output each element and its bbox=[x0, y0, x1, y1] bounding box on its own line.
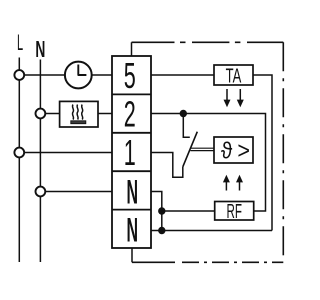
wire junction to RF bbox=[162, 210, 215, 212]
TA down arrow 2 bbox=[237, 89, 244, 107]
svg-text:5: 5 bbox=[124, 57, 136, 97]
svg-text:RF: RF bbox=[226, 201, 241, 223]
enclosure border top (dash-dot) bbox=[132, 41, 284, 43]
terminal block outline bbox=[112, 56, 151, 248]
terminal block dividers bbox=[112, 94, 151, 209]
wire N to terminal N (row N) bbox=[46, 191, 113, 193]
wire terminal N row to TA return bbox=[151, 230, 272, 232]
terminal label 1 bbox=[124, 133, 136, 173]
svg-text:>: > bbox=[237, 137, 250, 164]
wire heater to terminal 2 bbox=[98, 113, 112, 115]
terminal circle N1 bbox=[36, 109, 46, 119]
wire N to heater (row 2) bbox=[46, 113, 60, 115]
RF box bbox=[215, 201, 254, 223]
enclosure border right (dash-dot) bbox=[282, 42, 284, 262]
wire L to clock (row 5) bbox=[24, 74, 65, 76]
RF up arrow 1 bbox=[223, 175, 230, 191]
net label L bbox=[17, 30, 23, 55]
wire clock to terminal 5 bbox=[92, 74, 112, 76]
wire terminal 2 to right drop bbox=[151, 114, 266, 212]
junction dot node C bbox=[158, 227, 165, 234]
RF up arrow 2 bbox=[236, 175, 243, 191]
svg-text:L: L bbox=[17, 30, 23, 55]
svg-text:N: N bbox=[127, 173, 139, 211]
svg-text:1: 1 bbox=[124, 133, 136, 173]
terminal label 2 bbox=[124, 95, 136, 135]
wire terminal 5 to TA bbox=[151, 74, 214, 76]
wire TA to right drop bbox=[253, 75, 272, 231]
switch fixed contact bbox=[183, 114, 190, 138]
terminal circle L2 bbox=[14, 148, 24, 158]
junction dot node B bbox=[158, 207, 165, 214]
TA down arrow 1 bbox=[224, 89, 231, 107]
svg-text:TA: TA bbox=[226, 65, 242, 88]
junction dot node A bbox=[180, 110, 187, 117]
svg-text:ϑ: ϑ bbox=[221, 137, 232, 164]
terminal label N (4th) bbox=[127, 173, 139, 211]
wire terminal N to junction column bbox=[151, 192, 162, 231]
mechanical link to thermostat bbox=[191, 148, 215, 150]
terminal label 5 bbox=[124, 57, 136, 97]
svg-text:N: N bbox=[35, 38, 45, 63]
enclosure border bottom (dash-dot) bbox=[132, 261, 283, 263]
heater element box bbox=[60, 101, 98, 127]
wire terminal 1 to switch pivot bbox=[151, 153, 183, 178]
terminal circle L1 bbox=[14, 70, 24, 80]
TA box bbox=[214, 65, 253, 88]
wire L to terminal 1 (row 1) bbox=[24, 152, 112, 154]
wire L rail bbox=[18, 58, 20, 263]
svg-text:N: N bbox=[127, 211, 139, 249]
wire block bottom stub bbox=[131, 248, 133, 262]
thermostat box U1 bbox=[214, 137, 253, 164]
wire block top stub bbox=[131, 42, 133, 56]
svg-text:2: 2 bbox=[124, 95, 136, 135]
net label N bbox=[35, 38, 45, 63]
switch lever bbox=[183, 132, 198, 167]
terminal circle N2 bbox=[36, 187, 46, 197]
terminal label N (5th) bbox=[127, 211, 139, 249]
timer clock symbol bbox=[65, 62, 92, 89]
wire N rail bbox=[39, 60, 41, 263]
